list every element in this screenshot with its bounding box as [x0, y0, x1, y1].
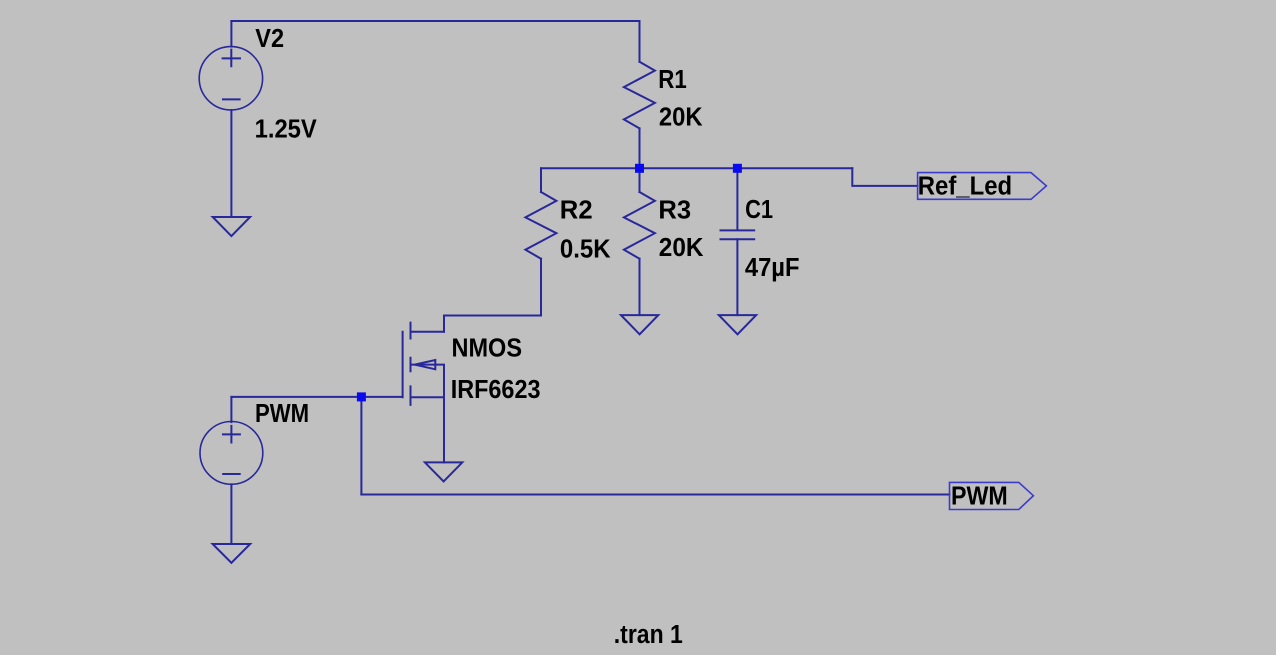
svg-text:0.5K: 0.5K — [560, 235, 611, 263]
wire drain vertical — [443, 316, 445, 332]
transistor Q1 body arrow line — [411, 365, 445, 398]
capacitor C1 — [721, 230, 755, 239]
wire C1 top lead — [736, 168, 738, 230]
transistor Q1 body arrowhead — [415, 360, 436, 369]
resistor R3 — [624, 192, 655, 259]
wire bottom horizontal to PWM flag — [361, 494, 949, 496]
svg-text:C1: C1 — [745, 196, 773, 224]
wire R3 top lead — [639, 168, 641, 192]
wire R2 to drain horizontal — [444, 315, 541, 317]
node junction 2 — [733, 164, 742, 173]
wire R2 bottom lead — [540, 259, 542, 316]
wire V2 top lead — [230, 21, 232, 47]
wire PWM source bottom lead — [230, 484, 232, 544]
ground Q1 source — [425, 462, 462, 481]
V1 minus sign — [223, 473, 240, 475]
svg-text:R1: R1 — [658, 66, 687, 94]
node junction 3 — [357, 392, 366, 401]
svg-text:R3: R3 — [658, 196, 691, 224]
svg-text:Ref_Led: Ref_Led — [918, 173, 1012, 201]
flag Ref_Led outline — [918, 173, 1047, 200]
wire R3 bottom lead — [639, 259, 641, 315]
svg-text:20K: 20K — [659, 234, 704, 262]
wire C1 bottom lead — [736, 239, 738, 315]
svg-text:R2: R2 — [560, 197, 593, 225]
ground R3 — [621, 315, 658, 334]
svg-text:NMOS: NMOS — [452, 335, 523, 363]
svg-text:20K: 20K — [659, 103, 703, 131]
svg-text:1.25V: 1.25V — [255, 116, 317, 144]
wire R1 top lead — [639, 21, 641, 62]
node junction 1 — [635, 164, 644, 173]
svg-text:V2: V2 — [255, 25, 284, 53]
svg-text:47µF: 47µF — [745, 254, 800, 282]
ground V2 — [213, 217, 250, 236]
flag PWM outline — [950, 482, 1034, 509]
voltage source V2 circle — [199, 47, 262, 110]
wire R1 bottom lead — [639, 128, 641, 168]
wire R2 top lead — [540, 168, 542, 192]
transistor Q1 channel segments — [410, 323, 412, 405]
svg-text:.tran 1: .tran 1 — [614, 621, 683, 649]
voltage source V1 PWM circle — [200, 422, 263, 485]
resistor R1 — [624, 62, 655, 129]
svg-text:PWM: PWM — [255, 400, 309, 428]
V2 plus sign — [223, 50, 240, 67]
wire junction down — [360, 397, 362, 495]
resistor R2 — [525, 192, 556, 259]
wire PWM source top lead — [230, 397, 232, 422]
V1 plus sign — [223, 426, 240, 443]
wire node to Ref_Led flag — [852, 168, 917, 186]
ground V1 — [213, 544, 251, 563]
ground C1 — [719, 315, 756, 334]
transistor Q1 source line — [411, 396, 445, 398]
wire top horizontal V2 to R1 — [231, 20, 639, 22]
transistor Q1 drain line — [411, 331, 445, 333]
wire gate horizontal PWM — [231, 396, 402, 398]
transistor Q1 NMOS gate bar — [402, 332, 404, 398]
wire V2 bottom lead — [230, 110, 232, 217]
svg-text:PWM: PWM — [951, 482, 1008, 510]
V2 minus sign — [223, 98, 240, 100]
wire source down — [443, 397, 445, 462]
wire node horizontal — [541, 167, 852, 169]
svg-text:IRF6623: IRF6623 — [451, 376, 541, 404]
